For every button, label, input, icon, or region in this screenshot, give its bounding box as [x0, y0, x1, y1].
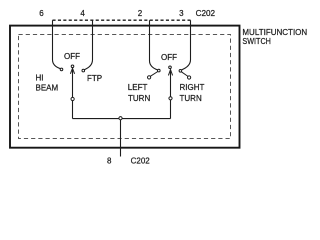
right switch: LEFT TURN throw lever — [150, 72, 158, 77]
right switch: OFF terminal — [169, 66, 172, 69]
svg-text:SWITCH: SWITCH — [242, 37, 271, 46]
right switch: RIGHT TURN throw lever — [181, 72, 188, 77]
left switch: OFF terminal — [71, 65, 74, 68]
svg-text:BEAM: BEAM — [36, 83, 59, 92]
inner dashed box — [19, 35, 231, 139]
svg-text:OFF: OFF — [161, 53, 177, 62]
svg-text:TURN: TURN — [128, 94, 150, 103]
svg-text:RIGHT: RIGHT — [180, 83, 205, 92]
svg-text:3: 3 — [179, 9, 184, 18]
outer solid box (multifunction switch component box) — [10, 26, 240, 148]
left switch: HI BEAM terminal — [60, 68, 63, 71]
wire pin 6 to HI BEAM contact — [53, 20, 61, 68]
svg-text:MULTIFUNCTION: MULTIFUNCTION — [242, 28, 307, 37]
svg-text:OFF: OFF — [64, 52, 80, 61]
wire pin 2 to LEFT TURN contact — [150, 20, 158, 70]
left switch: FTP terminal — [82, 69, 85, 72]
wire pin 4 to FTP contact — [84, 20, 92, 69]
left switch wiper arrow — [70, 68, 74, 74]
common bus wire joining both switches — [73, 118, 171, 120]
junction node to pin 8 — [119, 117, 122, 120]
svg-text:C202: C202 — [196, 9, 216, 18]
left switch shaft inline connector circle — [71, 97, 74, 100]
svg-text:2: 2 — [138, 9, 143, 18]
svg-text:FTP: FTP — [87, 74, 102, 83]
svg-text:HI: HI — [36, 74, 44, 83]
right switch shaft inline connector circle — [169, 97, 172, 100]
wire pin 3 to RIGHT TURN contact — [182, 20, 191, 70]
right switch common shaft wire — [170, 70, 172, 119]
svg-text:6: 6 — [39, 9, 44, 18]
svg-text:TURN: TURN — [180, 94, 202, 103]
svg-text:8: 8 — [107, 157, 112, 166]
right switch: LEFT TURN terminal — [158, 69, 161, 72]
right switch: RIGHT TURN terminal — [179, 70, 182, 73]
svg-text:C202: C202 — [131, 157, 151, 166]
left switch common shaft wire — [72, 68, 74, 118]
right switch: RIGHT TURN lever end circle — [188, 76, 191, 79]
svg-text:4: 4 — [80, 9, 85, 18]
wire junction to pin 8 — [120, 120, 122, 157]
connector C202 dashed bracket line (top) — [53, 19, 191, 21]
svg-text:LEFT: LEFT — [128, 83, 148, 92]
right switch: LEFT TURN lever end circle — [148, 76, 151, 79]
right switch wiper arrow — [168, 70, 172, 76]
